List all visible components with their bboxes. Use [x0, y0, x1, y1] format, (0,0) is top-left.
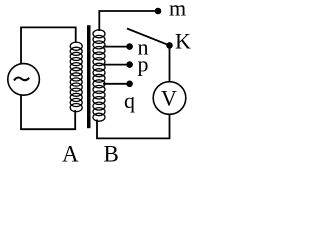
- switch K blade: [127, 29, 170, 46]
- primary coil winding: [70, 42, 82, 112]
- svg-text:K: K: [175, 28, 191, 53]
- tap n dot: [126, 43, 133, 50]
- wire: tap q: [103, 83, 127, 85]
- wire: tap n: [103, 46, 127, 48]
- AC source tilde symbol: [14, 77, 29, 80]
- wire: primary loop top and left side: [21, 27, 76, 63]
- svg-text:q: q: [124, 88, 135, 113]
- svg-text:B: B: [104, 142, 119, 167]
- tap q dot: [126, 81, 133, 88]
- svg-text:p: p: [138, 52, 149, 77]
- wire: tap p: [103, 64, 127, 66]
- terminal m dot: [155, 8, 162, 15]
- transformer core bar: [87, 25, 91, 128]
- wire: K to voltmeter: [169, 48, 171, 82]
- AC source circle: [8, 64, 40, 96]
- svg-text:A: A: [62, 142, 79, 167]
- voltmeter V circle: [153, 82, 186, 115]
- wire: primary loop bottom: [21, 95, 75, 129]
- wire: voltmeter bottom to secondary bottom: [97, 114, 170, 138]
- secondary coil winding: [93, 30, 105, 121]
- svg-text:V: V: [161, 86, 177, 111]
- tap p dot: [126, 61, 133, 68]
- svg-text:m: m: [169, 0, 186, 21]
- wire: secondary top to terminal m: [99, 11, 155, 31]
- switch K pivot dot: [166, 42, 173, 49]
